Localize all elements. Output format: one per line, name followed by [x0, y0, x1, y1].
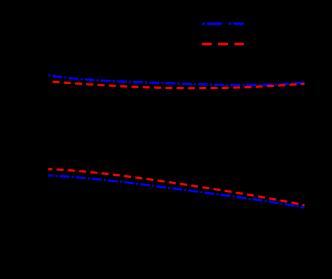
legend sample: red dashed line [202, 43, 244, 45]
curve: lower blue dash-dot series [48, 176, 304, 208]
curve: upper red dashed series [48, 81, 304, 88]
legend sample: blue dash-dot line [202, 23, 244, 25]
curve: upper blue dash-dot series [48, 75, 304, 85]
curve: lower red dashed series [48, 169, 304, 205]
